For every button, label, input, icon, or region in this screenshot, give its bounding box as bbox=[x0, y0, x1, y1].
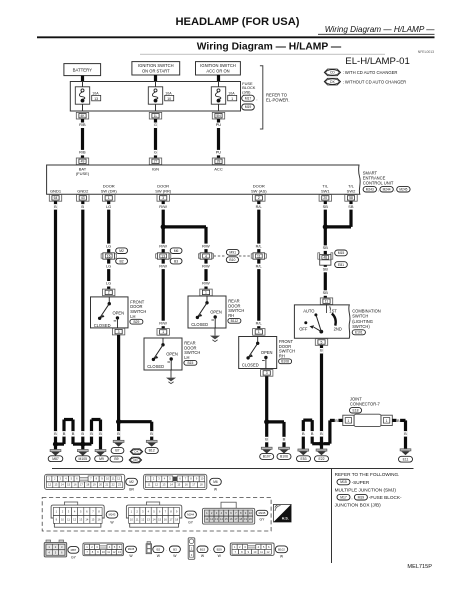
svg-text:16: 16 bbox=[164, 517, 167, 521]
wire R/L to front door switch RH bbox=[255, 259, 264, 328]
svg-text:OPEN: OPEN bbox=[210, 310, 222, 315]
svg-text:20: 20 bbox=[99, 483, 102, 487]
svg-text:49: 49 bbox=[81, 160, 85, 164]
wire R/W to rear door switch RH connector bbox=[202, 259, 211, 289]
svg-text:G: G bbox=[154, 122, 157, 127]
svg-text:15: 15 bbox=[225, 517, 228, 521]
ground terminal M105 bbox=[76, 444, 91, 461]
svg-text:M9: M9 bbox=[99, 457, 104, 461]
svg-text:R/L: R/L bbox=[256, 320, 263, 325]
svg-text:1: 1 bbox=[205, 291, 207, 295]
svg-text:19: 19 bbox=[244, 517, 247, 521]
svg-text:10: 10 bbox=[106, 477, 109, 481]
svg-text:B107: B107 bbox=[263, 455, 271, 459]
connector 28 ACC bbox=[212, 158, 224, 165]
svg-text:LG: LG bbox=[106, 281, 111, 286]
svg-text:M244: M244 bbox=[383, 187, 391, 191]
svg-text:17: 17 bbox=[169, 517, 172, 521]
front door switch RH B108 bbox=[239, 337, 295, 369]
svg-text:1: 1 bbox=[231, 97, 233, 101]
junction gnd2 bbox=[80, 442, 85, 447]
svg-text:10: 10 bbox=[253, 550, 256, 554]
svg-text:RH: RH bbox=[228, 313, 234, 318]
junction t/l sw bbox=[323, 224, 351, 229]
combination switch label bbox=[352, 308, 381, 334]
svg-text:SB: SB bbox=[348, 204, 354, 209]
svg-text:11: 11 bbox=[67, 517, 70, 521]
svg-text:B29: B29 bbox=[217, 547, 223, 551]
svg-text:-SUPER: -SUPER bbox=[352, 480, 370, 485]
wire R/L door sw as bbox=[255, 201, 264, 253]
svg-text:17: 17 bbox=[234, 517, 237, 521]
ground bridge lighting switch bbox=[302, 420, 322, 449]
svg-text:SB: SB bbox=[323, 245, 329, 250]
svg-text:1: 1 bbox=[348, 419, 350, 423]
svg-text:GY: GY bbox=[260, 517, 266, 521]
ground terminal E22 bbox=[315, 444, 329, 462]
svg-text:B112: B112 bbox=[231, 319, 239, 323]
svg-text:12: 12 bbox=[141, 517, 144, 521]
svg-text:SW (AS): SW (AS) bbox=[251, 188, 267, 193]
ground terminal B7/B9 bbox=[110, 440, 143, 463]
ground terminal E11 bbox=[399, 449, 413, 462]
svg-text:R/L: R/L bbox=[256, 243, 263, 248]
svg-text:B7: B7 bbox=[115, 449, 119, 453]
svg-text:16: 16 bbox=[74, 483, 77, 487]
svg-text:4B: 4B bbox=[323, 256, 327, 260]
svg-text:R/W: R/W bbox=[202, 281, 210, 286]
svg-text:B: B bbox=[63, 431, 66, 436]
svg-text:4K: 4K bbox=[80, 114, 85, 118]
wire B branch to B12 bbox=[150, 422, 154, 441]
svg-text:BR: BR bbox=[129, 487, 134, 491]
connector 27 IGN bbox=[149, 158, 161, 165]
svg-text:SB: SB bbox=[323, 290, 329, 295]
svg-text:B15: B15 bbox=[187, 361, 193, 365]
svg-text:13: 13 bbox=[215, 517, 218, 521]
svg-text:E11: E11 bbox=[403, 457, 409, 461]
fuse block label bbox=[242, 81, 258, 110]
wire battery to fuse block bbox=[81, 76, 84, 82]
notes column separator bbox=[331, 469, 333, 564]
svg-text:NFEL0013: NFEL0013 bbox=[418, 50, 434, 54]
svg-text:CLOSED: CLOSED bbox=[191, 322, 208, 327]
svg-text:E18: E18 bbox=[352, 409, 358, 413]
fuse 10 10A bbox=[148, 82, 173, 112]
svg-text:MEL715P: MEL715P bbox=[407, 564, 432, 570]
wire R/W to rear door switch LH bbox=[159, 259, 168, 328]
joint connector-7 E18 bbox=[343, 397, 393, 427]
svg-text:B3: B3 bbox=[174, 259, 178, 263]
svg-text:SB: SB bbox=[323, 204, 329, 209]
svg-text:SW (DR): SW (DR) bbox=[101, 188, 118, 193]
svg-text:12: 12 bbox=[112, 550, 115, 554]
svg-text:13: 13 bbox=[54, 483, 57, 487]
svg-text:.: . bbox=[210, 548, 211, 552]
svg-text:B: B bbox=[54, 431, 57, 436]
svg-text:,: , bbox=[351, 495, 352, 500]
connector 2 front door switch LH bbox=[103, 289, 115, 296]
fuse 13 10A bbox=[75, 82, 100, 112]
svg-text:PU: PU bbox=[216, 122, 222, 127]
smart entrance control unit label bbox=[363, 170, 410, 192]
svg-text:11: 11 bbox=[325, 300, 329, 304]
svg-text:B15: B15 bbox=[200, 547, 206, 551]
connector 4K bbox=[76, 112, 88, 119]
wire R/B fuse13 to smart entrance BAT bbox=[78, 119, 87, 158]
svg-text:M2: M2 bbox=[129, 480, 134, 484]
refer-to notes bbox=[335, 472, 402, 508]
connector face B102 bbox=[230, 543, 287, 558]
svg-text:12: 12 bbox=[73, 517, 76, 521]
svg-text:DX: DX bbox=[330, 80, 335, 84]
legend CD with cd auto changer bbox=[324, 69, 397, 76]
svg-text:12: 12 bbox=[267, 550, 270, 554]
connector 5N bbox=[212, 112, 224, 119]
svg-text:2: 2 bbox=[108, 291, 110, 295]
svg-text:B2: B2 bbox=[120, 259, 124, 263]
svg-text:21: 21 bbox=[105, 483, 108, 487]
svg-text:B108: B108 bbox=[281, 359, 289, 363]
ground bridge gnd2 bbox=[83, 420, 102, 450]
svg-text:M91: M91 bbox=[229, 251, 236, 255]
wire B joint connector right to E11 bbox=[392, 418, 407, 449]
svg-text:E22: E22 bbox=[318, 457, 324, 461]
svg-text:M19: M19 bbox=[358, 495, 365, 499]
wire B joint connector left bbox=[324, 418, 344, 444]
svg-text:B: B bbox=[397, 418, 400, 423]
ground terminal E53 bbox=[297, 449, 311, 462]
dashed group box M243 M244 M245 bbox=[42, 498, 271, 532]
svg-text:12: 12 bbox=[210, 517, 213, 521]
svg-text:14: 14 bbox=[61, 483, 64, 487]
top rule bbox=[37, 36, 435, 38]
svg-text:14: 14 bbox=[153, 517, 156, 521]
svg-text:HEADLAMP (FOR USA): HEADLAMP (FOR USA) bbox=[175, 16, 299, 28]
svg-text:GY: GY bbox=[188, 520, 194, 524]
svg-text:M245: M245 bbox=[259, 511, 266, 515]
connector 2 door sw as bbox=[253, 195, 265, 202]
svg-text:SW1: SW1 bbox=[321, 188, 330, 193]
svg-text:H.S.: H.S. bbox=[282, 516, 289, 520]
svg-text:R/L: R/L bbox=[256, 204, 263, 209]
wire LG door sw dr bbox=[106, 201, 112, 253]
wire R/W door sw rr bbox=[159, 201, 168, 253]
svg-text:LH: LH bbox=[184, 355, 189, 360]
svg-text:E101: E101 bbox=[355, 330, 363, 334]
svg-text:18: 18 bbox=[175, 517, 178, 521]
svg-text:B: B bbox=[302, 431, 305, 436]
svg-text:CLOSED: CLOSED bbox=[242, 363, 259, 368]
connector 3 door sw rr bbox=[157, 195, 169, 202]
svg-text:3: 3 bbox=[266, 371, 268, 375]
svg-text:B: B bbox=[117, 431, 120, 436]
ground bridge gnd1 bbox=[56, 420, 83, 445]
svg-text:14: 14 bbox=[170, 483, 173, 487]
svg-text:B: B bbox=[54, 204, 57, 209]
svg-text:B: B bbox=[404, 431, 407, 436]
ground rear door switch LH bbox=[170, 370, 172, 378]
svg-text:18: 18 bbox=[86, 483, 89, 487]
svg-text:GY: GY bbox=[71, 555, 77, 559]
wire B front door switch LH down bbox=[117, 335, 121, 440]
connector 1 front door switch RH bbox=[253, 329, 265, 336]
svg-text:-FUSE BLOCK-: -FUSE BLOCK- bbox=[369, 495, 402, 500]
separator line bbox=[52, 468, 414, 470]
refer to el-power bracket bbox=[260, 66, 290, 129]
svg-text:14: 14 bbox=[85, 517, 88, 521]
inline connector 11 M91/B10 bbox=[239, 253, 266, 259]
svg-text:SW (RR): SW (RR) bbox=[155, 188, 172, 193]
svg-text:SW2: SW2 bbox=[347, 188, 356, 193]
junction gnd1 bbox=[53, 442, 58, 447]
legend DX without cd auto changer bbox=[324, 78, 406, 85]
svg-text:B3: B3 bbox=[173, 547, 177, 551]
svg-text:B: B bbox=[81, 204, 84, 209]
connector 3 front door switch RH out bbox=[261, 370, 273, 377]
svg-text:SWITCH): SWITCH) bbox=[352, 324, 370, 329]
wire B branch to B106 bbox=[282, 422, 286, 447]
ground terminal M9 bbox=[95, 450, 109, 462]
svg-text:DX: DX bbox=[134, 450, 138, 454]
svg-text:28: 28 bbox=[217, 160, 221, 164]
svg-text:12: 12 bbox=[155, 483, 158, 487]
svg-text:B: B bbox=[320, 431, 323, 436]
svg-text:M2: M2 bbox=[119, 249, 124, 253]
ground terminal B107 bbox=[260, 447, 274, 459]
svg-text:LG: LG bbox=[106, 243, 111, 248]
smart entrance control unit U1 bbox=[47, 165, 361, 194]
svg-text:4: 4 bbox=[205, 254, 207, 258]
svg-text:OPEN: OPEN bbox=[261, 350, 273, 355]
svg-text:10: 10 bbox=[61, 517, 64, 521]
svg-text:R/L: R/L bbox=[256, 263, 263, 268]
connector 5 combination switch out bbox=[315, 339, 327, 346]
ground terminal M87 bbox=[48, 444, 63, 461]
svg-text:B: B bbox=[90, 431, 93, 436]
wire ign-start to fuse block bbox=[154, 75, 157, 82]
svg-text:JUNCTION BOX (J/B): JUNCTION BOX (J/B) bbox=[335, 503, 382, 508]
svg-text:2: 2 bbox=[258, 196, 260, 200]
svg-text:10: 10 bbox=[167, 97, 171, 101]
svg-text:B106: B106 bbox=[280, 455, 288, 459]
svg-text:22: 22 bbox=[112, 483, 115, 487]
battery bbox=[64, 64, 101, 76]
svg-text:1: 1 bbox=[386, 419, 388, 423]
svg-text:G: G bbox=[154, 150, 157, 155]
connector 64 GND1 bbox=[49, 195, 61, 202]
connector 11 combination switch bbox=[320, 298, 332, 305]
svg-text:1: 1 bbox=[258, 330, 260, 334]
svg-text:CLOSED: CLOSED bbox=[94, 323, 111, 328]
svg-text:18: 18 bbox=[239, 517, 242, 521]
svg-text:5N: 5N bbox=[216, 114, 221, 118]
svg-text:B: B bbox=[99, 431, 102, 436]
svg-text:18: 18 bbox=[200, 483, 203, 487]
svg-text:17: 17 bbox=[192, 483, 195, 487]
svg-text:B: B bbox=[150, 431, 153, 436]
svg-text:M15: M15 bbox=[338, 251, 345, 255]
svg-text:REFER TO THE FOLLOWING.: REFER TO THE FOLLOWING. bbox=[335, 472, 400, 477]
svg-text:B: B bbox=[265, 437, 268, 442]
connector face M6 bbox=[144, 474, 222, 491]
inline connector 13 M6/B3 bbox=[156, 248, 182, 264]
svg-text:B: B bbox=[72, 431, 75, 436]
ground terminal B12 bbox=[145, 440, 158, 453]
svg-text:MULTIPLE JUNCTION (SMJ): MULTIPLE JUNCTION (SMJ) bbox=[335, 488, 397, 493]
svg-text:B102: B102 bbox=[278, 547, 285, 551]
ignition switch acc-or-on bbox=[196, 62, 241, 75]
svg-text:20: 20 bbox=[323, 196, 327, 200]
wire R/W branch to rear door switch RH bbox=[202, 227, 211, 253]
svg-text:B9: B9 bbox=[114, 457, 118, 461]
connector face M243 bbox=[51, 502, 118, 527]
svg-text:14: 14 bbox=[220, 517, 223, 521]
svg-text:13: 13 bbox=[161, 254, 165, 258]
svg-text:13: 13 bbox=[94, 97, 98, 101]
svg-text:R/B: R/B bbox=[79, 122, 86, 127]
svg-text:11: 11 bbox=[136, 517, 139, 521]
svg-text:,: , bbox=[256, 96, 257, 101]
svg-text:16: 16 bbox=[107, 254, 111, 258]
svg-text:OPEN: OPEN bbox=[166, 352, 178, 357]
rear door switch RH B112 bbox=[188, 296, 244, 328]
svg-text:1L: 1L bbox=[154, 114, 158, 118]
svg-text:10: 10 bbox=[200, 477, 203, 481]
svg-text:11: 11 bbox=[112, 477, 115, 481]
wire G fuse10 to IGN bbox=[154, 119, 158, 158]
svg-text:15: 15 bbox=[67, 483, 70, 487]
svg-text:3: 3 bbox=[118, 330, 120, 334]
wire LG to front door switch LH bbox=[106, 259, 112, 289]
connector face M2 bbox=[45, 474, 138, 491]
svg-text:10A: 10A bbox=[165, 91, 172, 95]
junction rear door branch bbox=[161, 224, 206, 229]
svg-text:B12: B12 bbox=[149, 449, 155, 453]
svg-text:M87: M87 bbox=[71, 548, 77, 552]
svg-text:B29: B29 bbox=[133, 320, 139, 324]
svg-text:M87: M87 bbox=[52, 457, 59, 461]
connector face M245 bbox=[203, 502, 268, 524]
svg-text:,: , bbox=[378, 188, 379, 192]
smj connector 4B M15/E81 bbox=[318, 250, 348, 268]
svg-text:OPEN: OPEN bbox=[112, 311, 124, 316]
svg-text:M6: M6 bbox=[213, 480, 218, 484]
wire B gnd2 to ground bbox=[81, 201, 85, 444]
svg-text:GND1: GND1 bbox=[50, 188, 62, 193]
svg-text:B: B bbox=[320, 348, 323, 353]
svg-text:2ND: 2ND bbox=[334, 326, 342, 331]
svg-text:: WITH CD AUTO CHANGER: : WITH CD AUTO CHANGER bbox=[343, 70, 398, 75]
svg-text:11: 11 bbox=[148, 483, 151, 487]
wire B combination switch to ground bbox=[320, 345, 324, 443]
inline connector 16 M2/B2 bbox=[101, 248, 127, 264]
svg-text:B10: B10 bbox=[229, 258, 235, 262]
svg-text:EL-H/LAMP-01: EL-H/LAMP-01 bbox=[345, 56, 410, 67]
svg-text:10A: 10A bbox=[92, 91, 99, 95]
ignition switch on-or-start bbox=[132, 62, 180, 75]
svg-text:13: 13 bbox=[147, 517, 150, 521]
svg-text:CONTROL UNIT: CONTROL UNIT bbox=[363, 181, 394, 186]
svg-text:SB: SB bbox=[323, 267, 329, 272]
svg-text:OFF: OFF bbox=[299, 326, 308, 331]
fuse 1 10A bbox=[211, 82, 236, 112]
svg-text:.: . bbox=[166, 548, 167, 552]
junction lighting switch ground bbox=[319, 441, 324, 446]
svg-text:Wiring Diagram — H/LAMP —: Wiring Diagram — H/LAMP — bbox=[325, 25, 436, 34]
svg-text:10: 10 bbox=[102, 550, 105, 554]
svg-text:19: 19 bbox=[93, 483, 96, 487]
svg-text:M243: M243 bbox=[109, 513, 116, 517]
svg-text:1: 1 bbox=[108, 196, 110, 200]
svg-text:CONNECTOR-7: CONNECTOR-7 bbox=[350, 402, 381, 407]
svg-text:E81: E81 bbox=[338, 263, 344, 267]
svg-text:64: 64 bbox=[54, 196, 58, 200]
svg-text:ACC OR ON: ACC OR ON bbox=[206, 68, 229, 73]
svg-text:AUTO: AUTO bbox=[303, 309, 314, 314]
connector 20 t/l sw1 bbox=[319, 195, 331, 202]
svg-text:13: 13 bbox=[162, 483, 165, 487]
svg-text:R/W: R/W bbox=[159, 263, 167, 268]
svg-text:1: 1 bbox=[162, 330, 164, 334]
svg-text:IGN: IGN bbox=[152, 166, 159, 171]
svg-text:11: 11 bbox=[107, 550, 110, 554]
svg-text:3: 3 bbox=[162, 196, 164, 200]
svg-text:M243: M243 bbox=[366, 187, 374, 191]
svg-text:M105: M105 bbox=[79, 457, 88, 461]
svg-text:R/B: R/B bbox=[79, 150, 86, 155]
svg-text:(FUSE): (FUSE) bbox=[76, 171, 90, 176]
svg-text:CD: CD bbox=[330, 71, 335, 75]
svg-text:12: 12 bbox=[117, 477, 120, 481]
svg-text:M245: M245 bbox=[399, 187, 407, 191]
svg-text:13: 13 bbox=[79, 517, 82, 521]
svg-text:R/W: R/W bbox=[202, 243, 210, 248]
svg-text:M105: M105 bbox=[128, 547, 135, 551]
connector 1 door sw dr bbox=[103, 195, 115, 202]
connector 49 BAT bbox=[76, 158, 88, 165]
ground terminal B106 bbox=[277, 447, 291, 459]
svg-text:11: 11 bbox=[257, 254, 261, 258]
svg-text:16: 16 bbox=[98, 517, 101, 521]
svg-text:B: B bbox=[283, 437, 286, 442]
wire SB to combination switch bbox=[322, 265, 328, 298]
svg-text:12: 12 bbox=[48, 483, 51, 487]
svg-text:10: 10 bbox=[130, 517, 133, 521]
svg-text:15: 15 bbox=[177, 483, 180, 487]
svg-text:RH: RH bbox=[279, 354, 285, 359]
svg-text:,: , bbox=[394, 188, 395, 192]
svg-text:20: 20 bbox=[249, 517, 252, 521]
svg-text:13: 13 bbox=[118, 550, 121, 554]
connector face M87 bbox=[44, 540, 79, 559]
svg-text:B: B bbox=[311, 431, 314, 436]
svg-text:BATTERY: BATTERY bbox=[73, 68, 93, 73]
connector 1 rear door switch RH bbox=[200, 289, 212, 296]
connector face M105 bbox=[83, 543, 137, 558]
wire B gnd1 to ground bbox=[54, 201, 58, 444]
svg-text:M17: M17 bbox=[340, 495, 347, 499]
svg-text:R/W: R/W bbox=[159, 243, 167, 248]
svg-text:B: B bbox=[81, 431, 84, 436]
svg-text:CLOSED: CLOSED bbox=[147, 364, 164, 369]
svg-text:E53: E53 bbox=[300, 457, 306, 461]
svg-text:EL-POWER.: EL-POWER. bbox=[266, 98, 290, 103]
ground rear door switch RH bbox=[214, 328, 216, 336]
svg-text:R/W: R/W bbox=[202, 263, 210, 268]
wire ign-acc to fuse block bbox=[217, 75, 220, 82]
fuse block J/B bbox=[70, 82, 240, 112]
